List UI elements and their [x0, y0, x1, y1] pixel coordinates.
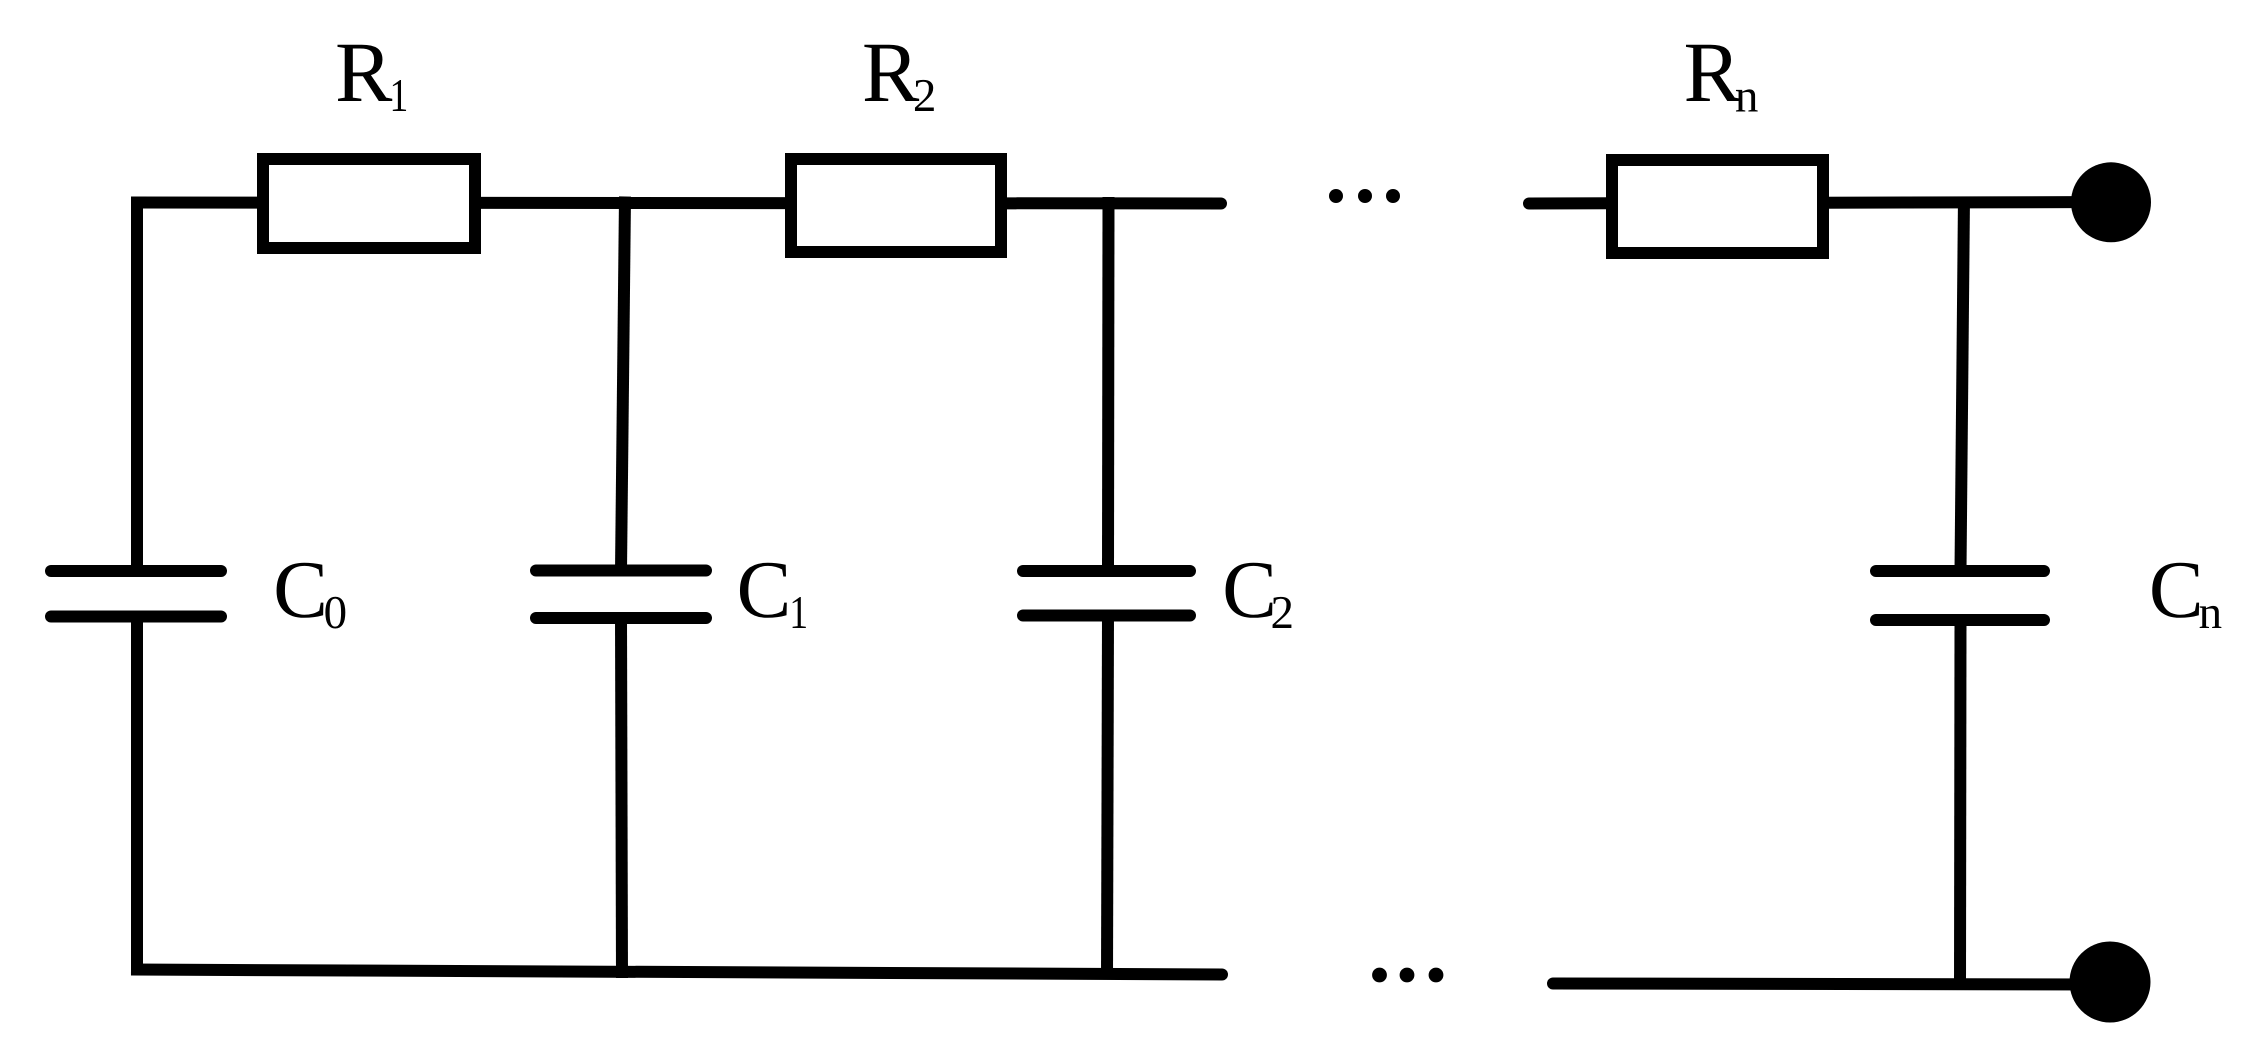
resistor R2 [791, 159, 1001, 252]
wire C1 branch lower [621, 618, 622, 978]
wire Cn branch lower [1954, 620, 1967, 990]
wire bottom rail right segment [1547, 978, 2110, 990]
terminal dot top right [2071, 162, 2151, 242]
label Cn [2152, 563, 2221, 628]
label C2 [1226, 563, 1292, 628]
label C1 [740, 563, 806, 628]
wire top rail right segment (into Rn and on to top terminal) [1523, 198, 2111, 210]
wire bottom rail left segment [131, 969, 1228, 981]
capacitor C2 bottom plate [1023, 610, 1190, 622]
ellipsis dots bottom rail [1372, 968, 1443, 983]
ellipsis dots top rail [1329, 189, 1400, 203]
wire C2 branch lower [1107, 616, 1108, 980]
label R2 [864, 45, 933, 111]
resistor R1 [263, 159, 475, 248]
resistor Rn [1612, 160, 1823, 253]
terminal dot bottom right [2070, 942, 2151, 1023]
label C0 [277, 563, 346, 629]
wire C0 branch lower [131, 617, 143, 976]
capacitor C2 top plate [1023, 565, 1190, 577]
capacitor C0 top plate [51, 565, 221, 577]
capacitor Cn bottom plate [1876, 614, 2044, 626]
node junction C2 top, wire C2 branch upper [1102, 197, 1115, 571]
capacitor C1 bottom plate [536, 612, 706, 624]
node junction Cn top, wire Cn branch upper [1961, 197, 1965, 572]
capacitor Cn top plate [1876, 565, 2044, 577]
wire C0 branch upper (left vertical) [131, 197, 143, 572]
label R1 [337, 45, 406, 111]
capacitor C1 top plate [536, 565, 706, 577]
node junction C1 top, wire C1 branch upper [621, 197, 625, 572]
label Rn [1686, 45, 1758, 112]
capacitor C0 bottom plate [51, 611, 221, 623]
wire top rail left segment (input node through R1, R2 to C2) [131, 198, 1227, 210]
